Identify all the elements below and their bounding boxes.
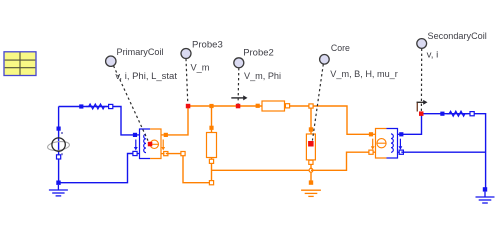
svg-text:V_m, Phi: V_m, Phi: [244, 71, 281, 82]
probe Probe3: [181, 40, 223, 104]
node red1 (Probe3 attach): [186, 104, 191, 109]
probe SecondaryCoil: [417, 31, 487, 111]
bent arrow marker: [417, 100, 428, 112]
pin stubs: [372, 133, 376, 135]
magnetic ground: [301, 190, 321, 196]
resistor R2: [440, 111, 474, 116]
svg-text:Probe2: Probe2: [243, 47, 274, 58]
current arrow (blue, down): [399, 139, 401, 147]
resistor R1: [79, 104, 113, 109]
pin stubs: [137, 134, 140, 136]
probe Probe2: [234, 47, 281, 103]
node red (SecondaryCoil probe attach): [419, 111, 424, 116]
pin n (bottom-left): [133, 151, 137, 155]
flux arrow (orange, down): [372, 139, 374, 147]
svg-text:SecondaryCoil: SecondaryCoil: [428, 31, 487, 42]
wire: left loop top: [59, 107, 135, 135]
magnetic side circle: [150, 140, 158, 148]
current arrow (blue, down): [135, 140, 137, 148]
wire: left loop vertical through source: [58, 107, 60, 183]
svg-text:v, i: v, i: [427, 49, 439, 60]
core element: [309, 127, 313, 131]
junction: left ground node: [56, 181, 60, 185]
lookup table icon: [4, 52, 36, 76]
port_p (top-right): [164, 133, 168, 137]
wire: magnetic bottom right link: [311, 152, 371, 170]
port_n (bottom-right): [164, 152, 168, 156]
junction square (top): [209, 104, 213, 108]
ground left: [49, 185, 68, 196]
red handle (Core probe attach): [308, 141, 314, 147]
junction: right ground node: [483, 187, 487, 191]
flux arrow (orange, down): [162, 140, 164, 148]
svg-text:V_m: V_m: [191, 63, 210, 74]
leakage reluctance element: [207, 126, 217, 164]
ground node square: [309, 180, 313, 184]
svg-text:v, i, Phi, L_stat: v, i, Phi, L_stat: [115, 71, 177, 82]
circle junction: [309, 168, 313, 172]
open junction square (top): [309, 104, 313, 108]
leakage column wire: [211, 106, 213, 183]
reluctance element horizontal (air gap): [256, 101, 290, 111]
wire: primary magnetic top: [166, 106, 371, 135]
wire: primary magnetic bottom: [166, 154, 212, 183]
node red2 (Probe2 attach): [236, 104, 241, 109]
red handle (probe attach): [148, 142, 153, 147]
wire: secondary bottom: [401, 151, 485, 153]
open junction square bottom: [209, 181, 213, 185]
magnetic side circle: [377, 139, 386, 148]
probe Core: [312, 43, 397, 141]
converter PrimaryCoil (electro-magnetic): [133, 129, 168, 159]
svg-text:Core: Core: [331, 43, 350, 54]
svg-text:Probe3: Probe3: [192, 40, 223, 51]
primary coil winding: [144, 134, 146, 152]
svg-text:V_m, B, H, mu_r: V_m, B, H, mu_r: [330, 69, 398, 80]
wire: secondary top: [401, 114, 421, 135]
wire: left loop bottom: [59, 154, 135, 183]
pin p (top-right): [399, 132, 403, 136]
voltage source V1: [47, 127, 70, 160]
pin n (bottom-right): [399, 150, 403, 154]
port_n (bottom-left): [369, 150, 373, 154]
wire: mid horizontal link: [212, 169, 312, 171]
svg-text:PrimaryCoil: PrimaryCoil: [117, 47, 164, 58]
converter SecondaryCoil: [369, 129, 404, 159]
probe PrimaryCoil: [106, 47, 178, 142]
core column: [306, 104, 315, 185]
secondary coil winding: [391, 134, 393, 152]
flux direction arrow (black): [231, 95, 247, 100]
open pin at corner: [181, 152, 185, 156]
ground right: [476, 192, 495, 203]
port_p (top-left): [369, 132, 373, 136]
pin p (top-left): [133, 133, 137, 137]
wire: secondary resistor top: [422, 114, 486, 190]
